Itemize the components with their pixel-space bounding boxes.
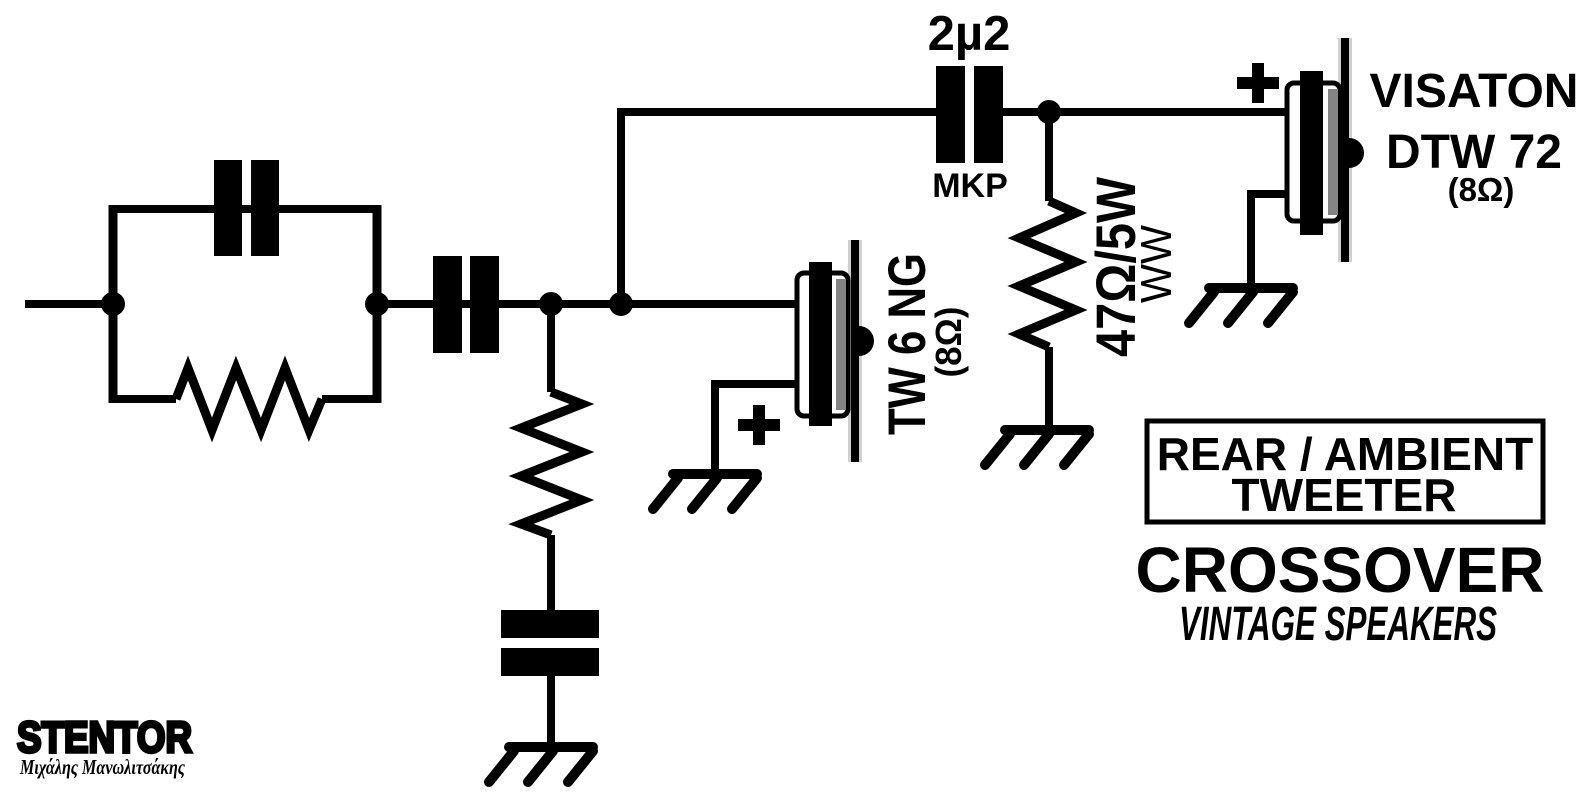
svg-text:CROSSOVER: CROSSOVER <box>1136 534 1545 606</box>
svg-text:(8Ω): (8Ω) <box>928 307 969 378</box>
svg-text:VINTAGE SPEAKERS: VINTAGE SPEAKERS <box>1179 598 1497 651</box>
svg-text:WW: WW <box>1132 225 1181 303</box>
svg-text:(8Ω): (8Ω) <box>1448 171 1515 208</box>
svg-text:Μιχάλης Μανωλιτσάκης: Μιχάλης Μανωλιτσάκης <box>19 755 185 779</box>
svg-text:2µ2: 2µ2 <box>928 7 1011 61</box>
svg-text:VISATON: VISATON <box>1370 65 1579 118</box>
svg-text:TWEETER: TWEETER <box>1232 469 1457 521</box>
svg-text:MKP: MKP <box>932 167 1008 205</box>
